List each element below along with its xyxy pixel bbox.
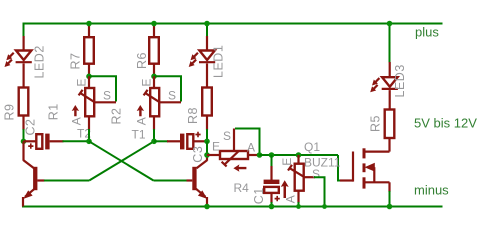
junction X2 xyxy=(86,139,92,145)
LED D3 xyxy=(370,62,398,110)
junction R3 top xyxy=(296,152,302,158)
junction plus rail / LED3 xyxy=(387,21,393,27)
svg-text:A: A xyxy=(70,117,84,125)
junction R7/R1 xyxy=(86,74,92,80)
junction node T2 collector xyxy=(21,139,27,145)
svg-text:R7: R7 xyxy=(69,53,83,70)
trimmer R1 xyxy=(72,76,116,130)
svg-text:S: S xyxy=(103,89,111,103)
svg-text:5V bis 12V: 5V bis 12V xyxy=(414,116,477,131)
resistor R7 xyxy=(84,24,94,77)
trimmer R2 xyxy=(137,76,181,130)
svg-text:R9: R9 xyxy=(3,104,17,121)
junction T1 collector / R4 E xyxy=(204,152,210,158)
svg-text:T1: T1 xyxy=(132,128,146,142)
junction C1 top xyxy=(269,152,275,158)
svg-text:E: E xyxy=(75,79,89,87)
svg-text:S: S xyxy=(223,129,231,143)
junction C3/R8 xyxy=(204,139,210,145)
wire S-loop R3 xyxy=(314,177,325,206)
svg-text:E: E xyxy=(280,158,294,166)
junction R3 S / rail xyxy=(322,204,327,209)
resistor R8 xyxy=(202,88,212,116)
svg-text:A: A xyxy=(135,117,149,125)
wire S-loop R1 xyxy=(89,76,116,101)
svg-text:R4: R4 xyxy=(234,181,250,195)
svg-text:R8: R8 xyxy=(186,107,200,124)
svg-text:LED1: LED1 xyxy=(212,45,226,78)
wire MOSFET source to rail xyxy=(389,191,391,207)
junction source / rail xyxy=(387,204,393,210)
svg-text:A: A xyxy=(247,141,255,155)
wire gate net xyxy=(260,154,339,156)
wire LED3 anode xyxy=(389,24,391,63)
svg-text:C3: C3 xyxy=(191,146,205,163)
wire gate drop xyxy=(338,155,341,181)
junction R4 A / gate net xyxy=(257,152,263,158)
transistor T1 xyxy=(187,155,208,207)
wire T1 base horizontal xyxy=(154,180,188,182)
MOSFET Q1 xyxy=(340,148,390,192)
wire R1 to X2 xyxy=(88,129,90,141)
svg-text:BUZ11: BUZ11 xyxy=(304,156,341,170)
node minus: bottom rail wire xyxy=(22,206,443,208)
wire cross X2 to T1 base xyxy=(89,141,154,180)
LED D1 xyxy=(189,36,216,88)
capacitor C3 xyxy=(167,132,207,150)
svg-text:S: S xyxy=(168,89,176,103)
wire LED1 anode xyxy=(206,24,208,38)
resistor R6 xyxy=(149,24,159,77)
wire X1 to C3 xyxy=(154,140,168,142)
node plus: top rail wire xyxy=(23,23,443,25)
junction R6/R2 xyxy=(151,74,157,80)
trimmer R4 xyxy=(207,129,260,172)
wire LED2 anode xyxy=(23,24,25,38)
svg-text:minus: minus xyxy=(414,183,449,198)
wire T2 base horizontal xyxy=(44,180,89,182)
svg-text:C2: C2 xyxy=(24,119,38,136)
junction top rail taps xyxy=(86,21,92,27)
wire C2 to node X2 xyxy=(63,140,90,142)
svg-text:LED2: LED2 xyxy=(33,45,47,78)
svg-text:E: E xyxy=(212,140,220,154)
wire S-loop R2 xyxy=(154,76,181,101)
LED D2 xyxy=(5,36,32,88)
trimmer R3 xyxy=(281,155,315,207)
junction X1 xyxy=(151,139,157,145)
wire R5 to drain xyxy=(388,138,390,152)
wire R8 to node xyxy=(206,116,208,131)
svg-text:E: E xyxy=(140,79,154,87)
wire cross X1 to T2 base xyxy=(89,141,154,180)
junction T1 emitter / bottom rail xyxy=(204,204,210,210)
junction R3 A / rail xyxy=(296,204,301,209)
transistor T2 xyxy=(23,141,45,206)
wire S-loop R4 xyxy=(235,129,260,156)
svg-text:R2: R2 xyxy=(110,108,124,125)
capacitor C1 xyxy=(264,155,280,207)
wire R2 to X1 xyxy=(153,129,155,141)
capacitor C2 xyxy=(24,134,64,150)
svg-text:R6: R6 xyxy=(135,52,149,69)
wire R9 to node xyxy=(22,116,24,131)
svg-text:R5: R5 xyxy=(369,115,383,132)
svg-text:LED3: LED3 xyxy=(393,64,407,97)
wire down to T1 collector node xyxy=(206,141,208,155)
svg-text:R1: R1 xyxy=(47,103,61,120)
resistor R5 xyxy=(385,110,395,139)
junction C1 bottom xyxy=(269,204,275,210)
svg-text:plus: plus xyxy=(415,25,439,40)
svg-text:A: A xyxy=(283,195,297,203)
svg-text:Q1: Q1 xyxy=(304,140,320,154)
svg-text:C1: C1 xyxy=(252,187,266,204)
resistor R9 xyxy=(19,88,29,116)
